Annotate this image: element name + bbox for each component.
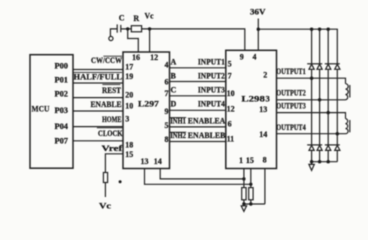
svg-text:5: 5	[165, 121, 169, 130]
diode D3	[326, 64, 331, 69]
svg-text:13: 13	[259, 105, 267, 114]
motor winding phase A coil	[346, 84, 349, 100]
svg-text:CW/CCW: CW/CCW	[91, 56, 122, 65]
svg-text:6: 6	[165, 77, 169, 86]
node dot rail col2	[318, 28, 321, 31]
wire OUTPUT4	[277, 133, 346, 135]
wire P07 to L297 pin18	[73, 140, 123, 142]
svg-text:P04: P04	[55, 122, 69, 131]
svg-text:Vref: Vref	[102, 144, 123, 153]
sense resistor Rs2	[249, 188, 253, 200]
wire L297 INH1 to L298 ENABLEA	[170, 126, 226, 128]
wire L298 pin8 to ground node	[264, 169, 266, 205]
svg-text:3: 3	[125, 115, 129, 124]
svg-text:OUTPUT1: OUTPUT1	[276, 67, 306, 76]
overbar on REST	[102, 84, 120, 86]
bottom diode pair cathode bar 1	[307, 144, 322, 146]
svg-text:Vc: Vc	[99, 201, 111, 211]
svg-text:4: 4	[165, 61, 169, 70]
wire L297 pin14 to sense1	[160, 169, 244, 179]
svg-text:P07: P07	[55, 137, 69, 146]
svg-text:INPUT4: INPUT4	[198, 99, 225, 108]
diode D8	[335, 145, 340, 150]
clamp column 1 mid	[311, 69, 313, 145]
svg-text:20: 20	[125, 91, 133, 100]
clamp column 2 mid	[319, 69, 321, 145]
svg-text:9: 9	[240, 53, 244, 62]
svg-text:P03: P03	[55, 106, 69, 115]
wire L297 INH2 to L298 ENABLEB	[170, 141, 226, 143]
diode D1	[309, 64, 314, 69]
svg-text:10: 10	[125, 102, 133, 111]
wire Rs1 to ground node	[243, 200, 245, 204]
node dot sense1	[242, 177, 245, 180]
wire P04 to L297 pin3	[73, 126, 123, 128]
node dot out2	[318, 98, 321, 101]
overbar on CCW	[103, 55, 122, 57]
wire P02 to L297 pin20	[73, 97, 123, 99]
L298 U3 box	[226, 50, 277, 168]
svg-text:2: 2	[263, 71, 267, 80]
wire 36V to L298 pin4	[257, 19, 259, 51]
wire L298 pin1 down	[243, 169, 245, 188]
node dot Vc	[148, 27, 151, 30]
svg-text:8: 8	[165, 135, 169, 144]
node dot rail col1	[310, 28, 313, 31]
svg-text:P02: P02	[55, 90, 69, 99]
svg-text:REST: REST	[102, 86, 122, 95]
node dot gnd col1	[310, 160, 313, 163]
svg-text:16: 16	[132, 53, 140, 62]
overbar on HALF/FULL	[74, 71, 123, 73]
svg-text:A: A	[171, 58, 177, 67]
winding B core bar	[349, 120, 351, 132]
svg-text:10: 10	[227, 89, 235, 98]
svg-text:Vc: Vc	[145, 11, 154, 20]
motor winding phase B coil	[346, 119, 349, 134]
svg-text:OUTPUT3: OUTPUT3	[276, 101, 306, 110]
node dot 36V rail	[257, 28, 260, 31]
svg-text:INPUT3: INPUT3	[198, 86, 225, 95]
wire P03 to L297 pin10	[73, 110, 123, 112]
svg-text:13: 13	[141, 157, 149, 166]
svg-text:6: 6	[228, 120, 232, 129]
wire terminal to capacitor C	[110, 29, 117, 37]
svg-text:INPUT1: INPUT1	[198, 58, 225, 67]
clamp column 3 mid	[327, 69, 329, 145]
node dot sense2	[249, 183, 252, 186]
svg-text:9: 9	[165, 107, 169, 116]
overbar on CLOCK	[97, 127, 122, 129]
svg-text:HOME: HOME	[102, 115, 122, 124]
wire L297 pin13 to sense2	[145, 169, 251, 185]
wire R to Vc node and down to L298 pin9	[142, 29, 245, 50]
node dot Rs2 gnd	[249, 202, 252, 205]
wire OUTPUT1	[277, 78, 346, 84]
svg-text:11: 11	[227, 135, 235, 144]
svg-text:D: D	[171, 99, 177, 108]
capacitor C plate left	[116, 24, 118, 32]
diode D5	[309, 145, 314, 150]
svg-text:14: 14	[154, 157, 162, 166]
svg-text:OUTPUT4: OUTPUT4	[276, 123, 306, 132]
wire diode D8 anode to ground rail	[336, 150, 338, 161]
wire Rs2 to ground node	[250, 200, 252, 204]
diode D4	[335, 64, 340, 69]
svg-text:17: 17	[125, 63, 133, 72]
L297 U2 box	[123, 52, 170, 169]
diode D7	[326, 145, 331, 150]
ground symbol right	[309, 162, 314, 171]
stray mark dot	[119, 180, 122, 183]
wire L297 D to L298 INPUT4	[170, 109, 226, 111]
svg-text:HALF/FULL: HALF/FULL	[74, 72, 123, 81]
resistor R2 (Vref divider)	[103, 173, 107, 183]
svg-text:C: C	[119, 13, 125, 22]
clamp column 4 mid	[336, 69, 338, 145]
svg-text:12: 12	[227, 104, 235, 113]
ground symbol center	[241, 204, 246, 211]
svg-text:C: C	[171, 86, 177, 95]
capacitor C plate right	[120, 25, 122, 32]
node dot gnd col2	[318, 160, 321, 163]
wire capacitor to resistor R	[121, 28, 132, 30]
node dot out4	[336, 132, 339, 135]
ground rail bottom right	[312, 161, 338, 163]
svg-text:3: 3	[266, 94, 270, 104]
sense resistor Rs1	[242, 188, 246, 200]
node dot Rs1 gnd	[242, 202, 245, 205]
diode D2	[317, 64, 322, 69]
svg-text:P00: P00	[55, 62, 69, 71]
wire L297 A to L298 INPUT1	[170, 67, 226, 69]
overbar on INH2	[170, 131, 186, 133]
node dot out3	[327, 111, 330, 114]
svg-text:15: 15	[246, 156, 254, 165]
top diode pair cathode bar 1	[307, 63, 322, 65]
node dot gnd col3	[327, 160, 330, 163]
wire L297 C to L298 INPUT3	[170, 95, 226, 97]
wire diode D7 anode to ground rail	[327, 150, 329, 161]
wire L298 pin15 down	[250, 169, 252, 188]
wire P01 to L297 pin19	[73, 82, 123, 84]
wire OUTPUT2	[277, 99, 346, 101]
MCU U1 box	[30, 55, 73, 169]
36V rail to diode column 4	[258, 29, 337, 64]
svg-text:18: 18	[125, 140, 133, 149]
node dot osc junction	[126, 27, 129, 30]
diode column 3 upper lead	[327, 29, 329, 64]
svg-text:L297: L297	[138, 99, 160, 109]
oscillator ground terminal circle	[109, 36, 113, 40]
svg-text:19: 19	[125, 72, 133, 81]
wire Vref to L297 pin15	[105, 154, 123, 173]
diode column 2 upper lead	[319, 29, 321, 64]
svg-text:B: B	[171, 72, 177, 81]
wire Vc to L297 pin12	[149, 29, 151, 52]
svg-text:36V: 36V	[250, 8, 266, 17]
wire L297 B to L298 INPUT2	[170, 81, 226, 83]
svg-text:R: R	[133, 14, 139, 23]
wire resistor to Vc	[104, 183, 106, 198]
resistor R box	[131, 26, 141, 32]
bottom diode pair cathode bar 2	[325, 144, 340, 146]
svg-text:12: 12	[150, 53, 158, 62]
wire P00 to L297 pin17	[73, 69, 123, 71]
overbar on INH1	[170, 117, 186, 119]
wire diode D6 anode to ground rail	[319, 150, 321, 161]
node dot out1	[310, 77, 313, 80]
wire OUTPUT3	[277, 113, 346, 119]
svg-text:ENABLE: ENABLE	[91, 100, 122, 109]
wire diode D5 anode to ground rail	[311, 150, 313, 161]
svg-text:P01: P01	[55, 76, 69, 85]
svg-text:CLOCK: CLOCK	[98, 129, 123, 138]
svg-text:4: 4	[253, 53, 257, 62]
svg-text:MCU: MCU	[32, 105, 50, 114]
svg-text:1: 1	[239, 156, 243, 165]
svg-text:15: 15	[125, 150, 133, 159]
svg-text:14: 14	[259, 130, 267, 139]
svg-text:5: 5	[228, 60, 232, 69]
winding A core bar	[349, 85, 351, 98]
svg-text:OUTPUT2: OUTPUT2	[276, 88, 306, 97]
svg-text:INPUT2: INPUT2	[198, 72, 225, 81]
svg-text:L298: L298	[241, 94, 265, 104]
svg-text:ENABLEA: ENABLEA	[188, 116, 226, 125]
svg-text:7: 7	[228, 72, 232, 81]
node dot rail col3	[327, 28, 330, 31]
svg-text:ENABLEB: ENABLEB	[188, 131, 226, 140]
ground node wire	[244, 203, 265, 205]
top diode pair cathode bar 2	[325, 63, 340, 65]
svg-text:8: 8	[263, 155, 267, 164]
diode D6	[317, 145, 322, 150]
wire osc junction to L297 pin16	[128, 29, 139, 52]
svg-text:7: 7	[165, 89, 169, 98]
diode column 1 upper lead	[311, 29, 313, 64]
